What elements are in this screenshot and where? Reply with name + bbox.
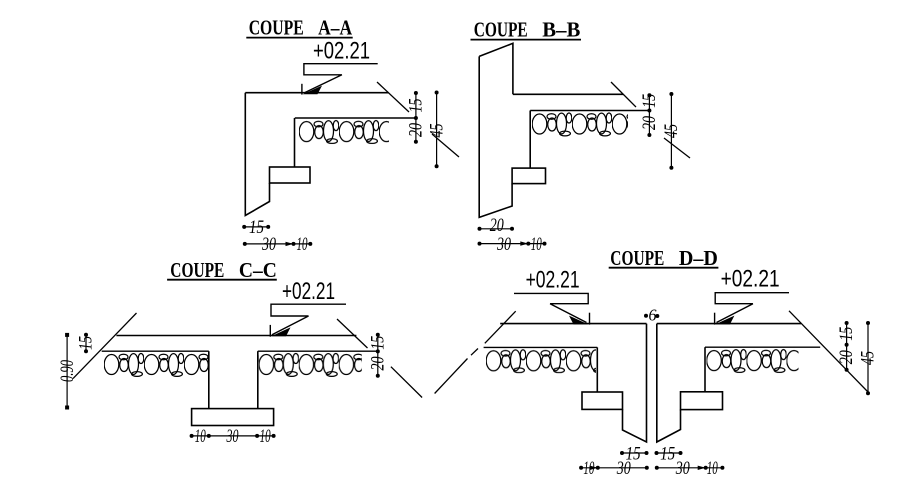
slab edge vertical (A-A) xyxy=(294,118,296,167)
title COUPE D-D xyxy=(609,246,719,270)
ledge block left (D-D) xyxy=(582,392,623,409)
svg-text:15: 15 xyxy=(836,327,857,341)
bottom dimension 10/30 left (D-D) xyxy=(579,458,649,479)
slab soffit line right (C-C) xyxy=(258,350,376,352)
svg-text:+02.21: +02.21 xyxy=(721,266,780,293)
svg-text:15: 15 xyxy=(76,336,97,350)
deck top surface line (B-B) xyxy=(513,93,624,95)
bottom dimension 15 left (D-D) xyxy=(620,443,649,464)
axis break line dash-dot left (D-D) xyxy=(435,311,516,393)
svg-text:10: 10 xyxy=(531,234,542,255)
svg-text:COUPE: COUPE xyxy=(170,258,224,282)
edge beam outline (A-A) xyxy=(245,93,269,216)
svg-text:10: 10 xyxy=(297,234,308,255)
slab top line (A-A) xyxy=(295,117,415,119)
gravel hatch band right (C-C) xyxy=(259,353,362,378)
svg-text:20: 20 xyxy=(490,215,504,236)
svg-text:10: 10 xyxy=(707,458,718,479)
gravel hatch band left (C-C) xyxy=(104,353,208,378)
level mark symbol right (D-D) xyxy=(715,293,789,325)
rib outline (C-C) xyxy=(209,351,258,408)
elevation label +02.21 (A-A) xyxy=(313,38,370,65)
ledge block (A-A) xyxy=(270,167,311,183)
title COUPE C-C xyxy=(167,258,277,282)
level mark symbol (C-C) xyxy=(270,304,346,337)
svg-text:30: 30 xyxy=(496,234,511,255)
bottom dimension 30/10 (B-B) xyxy=(478,234,547,255)
bottom dimension 30/10 (A-A) xyxy=(243,234,312,255)
svg-text:20: 20 xyxy=(406,123,427,137)
bottom dimension 10/30/10 (C-C) xyxy=(190,426,276,447)
gravel hatch band right (D-D) xyxy=(707,349,799,374)
svg-text:15: 15 xyxy=(660,443,675,464)
svg-text:+02.21: +02.21 xyxy=(313,38,370,65)
slab top line right (D-D) xyxy=(705,346,820,348)
joint dimension 6 (D-D) xyxy=(644,306,659,325)
svg-text:COUPE: COUPE xyxy=(610,246,664,270)
svg-text:COUPE: COUPE xyxy=(474,18,528,42)
title COUPE B-B xyxy=(471,18,582,42)
svg-text:45: 45 xyxy=(858,351,879,365)
svg-text:6: 6 xyxy=(649,306,657,325)
svg-text:45: 45 xyxy=(661,124,682,138)
svg-text:30: 30 xyxy=(261,234,276,255)
slab edge vertical (B-B) xyxy=(529,111,531,169)
svg-text:20: 20 xyxy=(836,350,857,364)
svg-text:10: 10 xyxy=(260,426,271,447)
svg-text:20: 20 xyxy=(639,116,660,130)
svg-text:45: 45 xyxy=(426,124,447,138)
svg-text:15: 15 xyxy=(639,94,660,108)
vertical dimension 15/20 right (C-C) xyxy=(367,333,388,378)
gravel hatch band left (D-D) xyxy=(486,349,596,374)
gravel hatch band (A-A) xyxy=(299,120,389,145)
ledge block (B-B) xyxy=(512,168,545,184)
vertical dimension 15/20 (B-B) xyxy=(639,93,660,137)
vertical dimension 15/20 (A-A) xyxy=(406,91,427,144)
break leader line right (D-D) xyxy=(789,311,868,392)
bottom dimension 15 right (D-D) xyxy=(655,443,683,464)
vertical dimension 0.90 (C-C) xyxy=(57,333,78,410)
ledge block right (D-D) xyxy=(681,392,723,410)
svg-text:B–B: B–B xyxy=(542,18,580,42)
slab top line left (D-D) xyxy=(484,346,598,348)
title COUPE A-A xyxy=(246,16,352,40)
svg-text:30: 30 xyxy=(675,458,690,479)
svg-text:+02.21: +02.21 xyxy=(282,278,335,305)
wall outline (B-B) xyxy=(479,43,513,217)
slab top line (B-B) xyxy=(530,110,648,112)
svg-text:A–A: A–A xyxy=(318,16,353,40)
footing block (C-C) xyxy=(192,409,274,426)
svg-text:20: 20 xyxy=(367,356,388,370)
vertical dimension 15/20 right (D-D) xyxy=(836,321,857,372)
break line left (C-C) xyxy=(73,313,137,379)
svg-text:15: 15 xyxy=(367,336,388,350)
break leader line (B-B) xyxy=(611,82,690,158)
deck top surface line left (D-D) xyxy=(500,323,646,325)
right half outline (D-D) xyxy=(657,324,705,442)
vertical dimension 15 left (C-C) xyxy=(76,333,97,354)
svg-text:15: 15 xyxy=(406,99,427,113)
svg-text:30: 30 xyxy=(616,458,631,479)
left half outline (D-D) xyxy=(597,324,646,442)
vertical dimension 45 right (D-D) xyxy=(858,321,879,395)
bottom dimension 20 (B-B) xyxy=(478,215,515,236)
svg-text:30: 30 xyxy=(226,426,239,447)
svg-text:10: 10 xyxy=(195,426,206,447)
svg-text:C–C: C–C xyxy=(239,258,277,282)
vertical dimension 45 (A-A) xyxy=(426,91,447,169)
bottom dimension 30/10 right (D-D) xyxy=(655,458,725,479)
bottom dimension 15 (A-A) xyxy=(242,217,270,238)
level mark symbol (A-A) xyxy=(302,64,378,95)
svg-text:D–D: D–D xyxy=(679,246,718,270)
deck top surface line right (D-D) xyxy=(657,323,801,325)
svg-text:+02.21: +02.21 xyxy=(526,266,580,293)
deck top surface line (C-C) xyxy=(116,335,356,337)
svg-text:COUPE: COUPE xyxy=(249,16,304,40)
break leader line (A-A) xyxy=(377,82,459,157)
slab soffit line left (C-C) xyxy=(102,350,209,352)
svg-text:0.90: 0.90 xyxy=(57,360,78,382)
gravel hatch band (B-B) xyxy=(532,112,628,137)
deck top surface line (A-A) xyxy=(245,92,388,94)
vertical dimension 45 (B-B) xyxy=(661,92,682,170)
svg-text:10: 10 xyxy=(583,458,594,479)
break leader line right (C-C) xyxy=(337,319,422,398)
level mark symbol left mirrored (D-D) xyxy=(514,293,590,324)
